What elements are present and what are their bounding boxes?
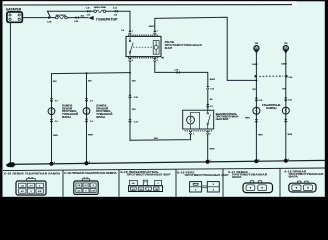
fusible link FL2 bbox=[94, 10, 106, 13]
svg-text:3: 3 bbox=[93, 185, 94, 187]
svg-text:1: 1 bbox=[193, 134, 194, 136]
fog lamp switch box bbox=[183, 110, 214, 129]
connector C-18 above right marker lamp bbox=[284, 98, 287, 101]
switch internal wiring bbox=[191, 112, 200, 129]
legend cell3 header Б-16 ПЕРЕКЛЮЧАТЕЛЬ ПРОТИВОТУМАННЫХ ФАР bbox=[121, 170, 171, 177]
svg-text:Ч-БЕЛ: Ч-БЕЛ bbox=[252, 64, 258, 66]
right marker lamp bulb bbox=[282, 107, 289, 114]
connector C-62 center vertical bbox=[128, 95, 131, 98]
battery bbox=[7, 12, 22, 22]
svg-text:БАТАРЕЯ: БАТАРЕЯ bbox=[6, 8, 22, 12]
relay coil bbox=[153, 41, 159, 55]
svg-text:7-Ж: 7-Ж bbox=[155, 189, 159, 191]
relay switch contact bbox=[129, 37, 133, 55]
left fog lamp bulb bbox=[48, 108, 55, 115]
svg-text:5: 5 bbox=[30, 191, 31, 193]
node ground right marker lamp bbox=[284, 159, 288, 163]
node junction relay coil feed bbox=[255, 79, 257, 81]
connector C-05 inline bbox=[76, 16, 79, 19]
connector below left fog lamp bbox=[50, 119, 53, 122]
svg-text:ПРОТИВОТУМАННЫХ ФАР: ПРОТИВОТУМАННЫХ ФАР bbox=[185, 173, 229, 177]
fusible link FL1 bbox=[56, 16, 68, 19]
svg-text:С-05: С-05 bbox=[74, 21, 78, 23]
relay U1 box bbox=[126, 36, 161, 56]
right black edge bbox=[325, 0, 328, 200]
svg-text:ФИОЛ: ФИОЛ bbox=[210, 78, 216, 81]
svg-text:С-16: С-16 bbox=[259, 100, 263, 102]
legend separator 2 bbox=[118, 170, 120, 197]
svg-text:ЛАМПЫ: ЛАМПЫ bbox=[266, 106, 277, 110]
connector above right fog lamp bbox=[85, 98, 88, 101]
legend separator 4 bbox=[222, 169, 224, 197]
svg-text:С-65: С-65 bbox=[175, 69, 179, 71]
node T-junction right fog lamp bbox=[86, 72, 88, 74]
left marker lamp bulb bbox=[253, 107, 260, 114]
svg-text:ФАРЫ: ФАРЫ bbox=[62, 115, 71, 119]
wire battery negative down to ground bus bbox=[9, 23, 11, 164]
label right fog lamp bbox=[96, 103, 112, 119]
connector pin switch top bbox=[206, 104, 209, 107]
relay mechanical link dashed bbox=[133, 46, 152, 48]
node junction splice to fusible-link branch bbox=[48, 11, 51, 19]
switch label ВЫКЛЮЧАТЕЛЬ ПРОТИВОТУМАННЫХ ФАР bbox=[216, 112, 239, 121]
wire top branch to fusible link 2 bbox=[48, 10, 94, 12]
wire switch to ground bbox=[207, 135, 209, 162]
legend separator 3 bbox=[175, 169, 177, 196]
relay label РЕЛЕ ПРОТИВОТУМАННЫХ ФАР bbox=[165, 40, 202, 50]
legend top rule bbox=[3, 168, 325, 171]
connector symbol right of dashed link bbox=[284, 75, 287, 78]
connector pin relay bottom-left bbox=[128, 58, 131, 61]
wire right fog lamp drop bbox=[86, 73, 88, 163]
svg-text:3: 3 bbox=[157, 31, 158, 33]
relay connector dashes top bbox=[128, 34, 159, 36]
connector pin relay top-left bbox=[128, 31, 131, 34]
wire to switch illumination bbox=[130, 135, 191, 140]
ground bus bbox=[8, 160, 326, 164]
circle connector right ТОК bbox=[283, 46, 288, 55]
connector pin switch bottom-center bbox=[206, 131, 209, 134]
connector C-73 inline vertical bbox=[206, 86, 209, 89]
off-page arrow to generator bbox=[89, 16, 94, 20]
wire left marker lamp vertical bbox=[255, 53, 257, 161]
svg-text:ЧЕРН: ЧЕРН bbox=[88, 135, 94, 137]
connector C-72 center vertical bbox=[128, 119, 131, 122]
node T-junction fog feed bbox=[129, 72, 131, 74]
right fog lamp bulb bbox=[83, 108, 90, 115]
connector pin switch bottom-left bbox=[189, 131, 192, 134]
connector below right marker lamp bbox=[284, 119, 287, 122]
legend cell3 connector pinout bbox=[129, 180, 163, 191]
wire relay coil top pin up bbox=[155, 17, 257, 80]
wire connector to switch top bbox=[207, 90, 209, 110]
bottom black band bbox=[0, 197, 328, 200]
legend cell4 header Б-16 РЕЛЕ ПРОТИВОТУМАННЫХ ФАР bbox=[177, 170, 228, 177]
node ground right fog lamp bbox=[85, 161, 89, 165]
legend separator 5 bbox=[279, 168, 281, 196]
connector C-15 inline bbox=[87, 10, 90, 13]
connector C-65 inline bbox=[177, 71, 180, 74]
top frame rule bbox=[4, 4, 293, 6]
connector C-12 inline bbox=[115, 10, 118, 13]
legend cell4 connector relay pinout bbox=[190, 182, 220, 192]
connector below left marker lamp bbox=[255, 119, 258, 122]
svg-text:С-12: С-12 bbox=[113, 8, 117, 10]
svg-text:6-Ж: 6-Ж bbox=[91, 190, 95, 192]
wire main feed to fusible link 1 bbox=[51, 17, 56, 19]
svg-text:5: 5 bbox=[85, 190, 86, 192]
svg-text:6: 6 bbox=[148, 189, 149, 191]
svg-text:3: 3 bbox=[210, 160, 211, 162]
legend cell6 connector pinout bbox=[289, 181, 316, 192]
switch contact bbox=[191, 110, 211, 129]
circle connector left ТОК bbox=[254, 46, 259, 55]
svg-text:ЧЕРН: ЧЕРН bbox=[209, 148, 215, 150]
connector symbol left of dashed link bbox=[255, 75, 258, 78]
label ГАБАРИТНЫЕ ЛАМПЫ bbox=[262, 103, 280, 110]
svg-text:С-16 ЛЕВАЯ ГАБАРИТНАЯ ЛАМПА: С-16 ЛЕВАЯ ГАБАРИТНАЯ ЛАМПА bbox=[4, 171, 61, 175]
legend cell2 connector C-18 pinout bbox=[74, 178, 98, 195]
svg-text:С-73: С-73 bbox=[210, 88, 214, 90]
svg-text:3: 3 bbox=[157, 183, 158, 185]
svg-text:С-18: С-18 bbox=[288, 100, 292, 102]
svg-text:6-Ж: 6-Ж bbox=[38, 191, 42, 193]
connector pin relay top-right bbox=[153, 31, 156, 34]
switch illumination bulb bbox=[187, 116, 195, 124]
svg-text:3: 3 bbox=[89, 161, 90, 163]
svg-text:1: 1 bbox=[132, 31, 133, 33]
ground symbol battery bbox=[6, 162, 16, 167]
svg-text:ФАРА: ФАРА bbox=[289, 174, 299, 178]
connector below right fog lamp bbox=[85, 119, 88, 122]
svg-text:3: 3 bbox=[259, 159, 260, 161]
svg-text:ГЕНЕРАТОР: ГЕНЕРАТОР bbox=[96, 18, 118, 22]
svg-text:ФАРЫ: ФАРЫ bbox=[96, 115, 105, 119]
legend cell5 header А-17 ЛЕВАЯ ПРОТИВОТУМАННАЯ ФАРА bbox=[228, 170, 267, 179]
svg-text:2-Ж: 2-Ж bbox=[114, 15, 118, 17]
svg-text:2-Ж: 2-Ж bbox=[87, 15, 91, 17]
dashed link between marker lamp circuits bbox=[259, 75, 283, 77]
connector C-16 above left marker lamp bbox=[255, 98, 258, 101]
svg-text:С-72: С-72 bbox=[134, 121, 138, 123]
svg-text:ФАРА: ФАРА bbox=[232, 175, 242, 179]
svg-text:3: 3 bbox=[288, 159, 289, 161]
connector C-33 above left fog lamp bbox=[50, 98, 53, 101]
svg-text:С-15: С-15 bbox=[86, 8, 90, 10]
svg-text:НЫХ ФАР: НЫХ ФАР bbox=[216, 117, 229, 121]
label left fog lamp bbox=[62, 103, 78, 119]
svg-text:С-62: С-62 bbox=[134, 97, 138, 99]
wire relay output down to junction bbox=[129, 62, 131, 141]
svg-text:ПРОТИВОТУМАННЫХ ФАР: ПРОТИВОТУМАННЫХ ФАР bbox=[127, 173, 171, 177]
node ground left fog lamp bbox=[0, 0, 1, 1]
pin label 4 arrow bbox=[161, 57, 164, 59]
svg-text:3: 3 bbox=[54, 162, 55, 164]
wire FL1 to connector bbox=[67, 17, 88, 19]
legend cell5 connector pinout bbox=[243, 181, 273, 193]
wire relay coil bottom to switch bbox=[155, 62, 208, 86]
white top margin strip bbox=[3, 1, 297, 4]
svg-text:2: 2 bbox=[132, 60, 133, 62]
svg-text:С-18 ПРАВАЯ ГАБАРИТНАЯ ЛАМПА: С-18 ПРАВАЯ ГАБАРИТНАЯ ЛАМПА bbox=[64, 171, 117, 175]
legend cell6 header А-18 ПРАВАЯ ПРОТИВОТУМАННАЯ ФАРА bbox=[284, 170, 323, 179]
switch connector dashes bottom bbox=[185, 130, 213, 132]
wire fog lamp feed horizontal bbox=[52, 73, 131, 164]
svg-text:ЧЕРН: ЧЕРН bbox=[245, 117, 250, 119]
wire battery positive to junction bbox=[23, 17, 51, 19]
legend separator 1 bbox=[62, 170, 64, 197]
node ground left marker lamp bbox=[254, 159, 258, 163]
svg-text:ЦЕПЬ А ПЛАВ: ЦЕПЬ А ПЛАВ bbox=[94, 6, 107, 9]
svg-text:ЧЕРН: ЧЕРН bbox=[258, 134, 263, 136]
svg-text:С-84: С-84 bbox=[289, 76, 293, 79]
svg-text:ЧЕРН: ЧЕРН bbox=[53, 135, 59, 137]
svg-text:ФАР: ФАР bbox=[165, 46, 173, 50]
node ground switch bbox=[206, 160, 210, 164]
relay connector dashes bottom bbox=[128, 57, 159, 59]
legend cell1 connector C-16 pinout bbox=[16, 178, 46, 195]
svg-text:ФИОЛ: ФИОЛ bbox=[149, 25, 155, 28]
wire FL2 to relay drop bbox=[106, 11, 130, 30]
connector pin relay bottom-right bbox=[153, 58, 156, 61]
svg-text:ЧЕРН: ЧЕРН bbox=[287, 134, 292, 136]
wire right marker lamp vertical bbox=[285, 53, 287, 161]
svg-text:Л-БЕЛ: Л-БЕЛ bbox=[281, 64, 287, 66]
svg-text:3: 3 bbox=[39, 185, 40, 187]
